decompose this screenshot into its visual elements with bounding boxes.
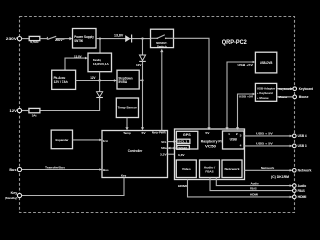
wire 230V to fuse bbox=[22, 38, 30, 40]
stepdown DC/DC box bbox=[117, 70, 139, 89]
svg-text:HDMI: HDMI bbox=[250, 193, 258, 197]
svg-text:Temp: Temp bbox=[123, 131, 131, 135]
USB adapter keyboard mouse box bbox=[255, 83, 276, 101]
wire MOSFET output to RPi 5V bbox=[174, 38, 211, 130]
svg-text:HDMI: HDMI bbox=[298, 195, 307, 199]
svg-text:Key: Key bbox=[11, 191, 18, 195]
expander box bbox=[51, 130, 72, 149]
svg-text:13,8V/0,1A: 13,8V/0,1A bbox=[93, 62, 110, 66]
svg-text:Netz-PWR: Netz-PWR bbox=[152, 131, 166, 135]
connector Bus bbox=[9, 167, 21, 172]
svg-text:13,8V: 13,8V bbox=[74, 54, 82, 58]
svg-text:Temp-Sensor: Temp-Sensor bbox=[118, 106, 138, 110]
battery Pb-Accu box bbox=[52, 70, 76, 89]
svg-text:Video: Video bbox=[182, 167, 191, 171]
wire D3 to 12V connector bbox=[40, 98, 100, 111]
temp sensor box bbox=[116, 98, 138, 118]
fuse F1 0,5At bbox=[29, 36, 40, 44]
wire USB hub pin2 to USB adapter bbox=[236, 93, 255, 131]
svg-text:+ Keyboard: + Keyboard bbox=[257, 91, 273, 95]
svg-text:230V: 230V bbox=[6, 37, 18, 41]
svg-text:FBAS: FBAS bbox=[250, 186, 257, 190]
connector USB 4 bbox=[293, 134, 307, 138]
diode D3 bbox=[96, 92, 103, 98]
wire fuse F2 to 12V connector bbox=[22, 110, 29, 112]
svg-text:Controller: Controller bbox=[128, 149, 143, 153]
wire controller Key to connector bbox=[22, 178, 124, 196]
svg-text:12V: 12V bbox=[136, 63, 141, 67]
standby supply box bbox=[88, 53, 112, 72]
wire standby down to 12V rail bbox=[99, 72, 101, 81]
svg-text:Bus: Bus bbox=[103, 168, 109, 172]
power supply box SNT50 bbox=[73, 29, 97, 49]
svg-text:Raspberry Pi: Raspberry Pi bbox=[201, 140, 222, 144]
wire node A down to D2 bbox=[142, 39, 144, 55]
svg-text:0,5At: 0,5At bbox=[30, 40, 38, 44]
network box bbox=[222, 160, 242, 178]
wire temp sensor to controller bbox=[125, 118, 128, 131]
svg-text:TransferBus: TransferBus bbox=[45, 165, 65, 169]
connector Key Standby bbox=[5, 191, 22, 200]
svg-text:USB +5V: USB +5V bbox=[239, 95, 253, 99]
svg-text:(Standby): (Standby) bbox=[5, 196, 17, 200]
diode D1 bbox=[125, 35, 131, 43]
switch S1 bbox=[47, 36, 56, 40]
svg-text:HDMI: HDMI bbox=[178, 184, 187, 188]
svg-text:12V / 7Ah: 12V / 7Ah bbox=[54, 80, 68, 84]
svg-text:Mouse: Mouse bbox=[299, 95, 309, 99]
connector Network bbox=[293, 169, 312, 173]
wire fuse to switch bbox=[40, 38, 48, 40]
svg-text:FBAS: FBAS bbox=[205, 170, 213, 174]
audio FBAS box bbox=[200, 160, 220, 178]
wire SCL to GPS box bbox=[168, 140, 177, 143]
svg-text:Keyboard: Keyboard bbox=[279, 87, 292, 91]
svg-text:Mouse: Mouse bbox=[279, 95, 288, 99]
svg-text:12V: 12V bbox=[90, 76, 96, 80]
node StepDown output junction bbox=[141, 79, 143, 81]
wire TransferBus to controller bbox=[22, 165, 102, 170]
wire junction down to standby bbox=[99, 39, 101, 54]
connector USB 3 bbox=[293, 144, 307, 148]
Raspberry Pi main box bbox=[175, 129, 245, 180]
svg-text:(C) DK1RM: (C) DK1RM bbox=[271, 175, 289, 179]
svg-text:USB 4: USB 4 bbox=[298, 134, 307, 138]
connector 12V bbox=[9, 108, 21, 113]
wire battery to standby with arrow bbox=[65, 57, 88, 71]
node 12V rail junction bbox=[98, 79, 100, 81]
svg-text:Keyboard: Keyboard bbox=[299, 87, 313, 91]
svg-text:VC50: VC50 bbox=[205, 144, 216, 148]
wire FBAS output bbox=[210, 178, 292, 191]
svg-text:USB 3: USB 3 bbox=[298, 144, 307, 148]
svg-text:3At: 3At bbox=[32, 113, 37, 117]
svg-text:USB-DVB: USB-DVB bbox=[260, 61, 273, 65]
svg-text:Int: Int bbox=[103, 139, 108, 143]
wire 3,3V controller to RPi bbox=[168, 153, 175, 155]
svg-text:5V: 5V bbox=[142, 131, 146, 135]
wire stepdown output to 5V node bbox=[139, 79, 142, 81]
svg-text:SNT50: SNT50 bbox=[74, 39, 83, 43]
svg-text:USB + 5V: USB + 5V bbox=[256, 132, 273, 136]
wire HDMI output bbox=[178, 180, 292, 199]
wire 12V junction down to D3 bbox=[99, 81, 101, 92]
wire power supply output bbox=[96, 38, 151, 40]
svg-text:SDa: SDa bbox=[161, 146, 167, 150]
wire SDA bidirectional bbox=[168, 147, 177, 150]
svg-text:Bus: Bus bbox=[9, 168, 16, 172]
svg-text:Switch: Switch bbox=[157, 44, 167, 48]
node PSU output junction bbox=[99, 38, 101, 40]
wire keyboard output bbox=[277, 87, 293, 91]
wire audio output bbox=[216, 178, 292, 187]
svg-text:+ Mouse: + Mouse bbox=[257, 96, 269, 100]
svg-text:Netzwerk: Netzwerk bbox=[225, 167, 240, 171]
svg-text:Network: Network bbox=[261, 166, 275, 170]
MOSFET switch box bbox=[151, 29, 174, 48]
connector 230V mains input bbox=[6, 37, 22, 42]
fuse F2 bbox=[29, 108, 40, 117]
connector Keyboard bbox=[293, 87, 313, 91]
wire switch to power supply bbox=[57, 37, 72, 40]
connector FBAS bbox=[293, 189, 306, 193]
svg-text:3,3V: 3,3V bbox=[178, 153, 185, 157]
svg-text:5V/6A: 5V/6A bbox=[118, 80, 127, 84]
wire D2 down to controller 5V pin bbox=[141, 61, 144, 130]
svg-text:SCL1: SCL1 bbox=[178, 140, 188, 144]
wire USB port 3 output bbox=[244, 132, 292, 138]
svg-text:GPS: GPS bbox=[183, 133, 191, 137]
svg-text:3,3V: 3,3V bbox=[160, 153, 167, 157]
svg-text:Expander: Expander bbox=[55, 138, 69, 142]
diode D2 bbox=[139, 55, 146, 61]
svg-text:USB: USB bbox=[230, 137, 238, 141]
controller box bbox=[102, 131, 168, 178]
wire expander to controller Int bbox=[73, 139, 103, 142]
svg-text:13,8V: 13,8V bbox=[114, 34, 124, 38]
GPS I2C box bbox=[176, 131, 197, 150]
svg-text:12V: 12V bbox=[9, 109, 17, 113]
wire controller Netz-PWR to MOSFET gate bbox=[160, 49, 163, 131]
svg-text:SDA0: SDA0 bbox=[178, 146, 188, 150]
wire 12V rail battery to stepdown bbox=[76, 79, 117, 82]
USB DVB box bbox=[255, 52, 276, 73]
wire mouse output bbox=[277, 95, 293, 99]
wire network output bbox=[245, 166, 293, 172]
svg-text:USB-Adapter: USB-Adapter bbox=[257, 86, 276, 90]
svg-text:Key: Key bbox=[121, 173, 127, 177]
USB hub box bbox=[223, 131, 245, 149]
svg-text:SCL: SCL bbox=[161, 140, 167, 144]
svg-text:Network: Network bbox=[298, 169, 312, 173]
connector Mouse bbox=[293, 95, 309, 99]
svg-text:Audio: Audio bbox=[251, 181, 259, 185]
svg-text:QRP-PC2: QRP-PC2 bbox=[222, 39, 247, 46]
svg-text:Audio: Audio bbox=[298, 184, 307, 188]
connector HDMI bbox=[293, 195, 307, 199]
node A junction after D1 bbox=[141, 37, 143, 39]
enclosure dashed border bbox=[20, 17, 295, 213]
wire USB port 4 output bbox=[244, 142, 292, 148]
svg-text:5V: 5V bbox=[205, 131, 209, 135]
wire USB hub pin1 to USB DVB bbox=[225, 61, 255, 131]
svg-text:USB +5V: USB +5V bbox=[238, 63, 253, 67]
svg-text:FBAS: FBAS bbox=[298, 189, 306, 193]
video box bbox=[176, 160, 196, 178]
connector Audio bbox=[293, 184, 307, 188]
svg-text:USB + 5V: USB + 5V bbox=[256, 142, 273, 146]
